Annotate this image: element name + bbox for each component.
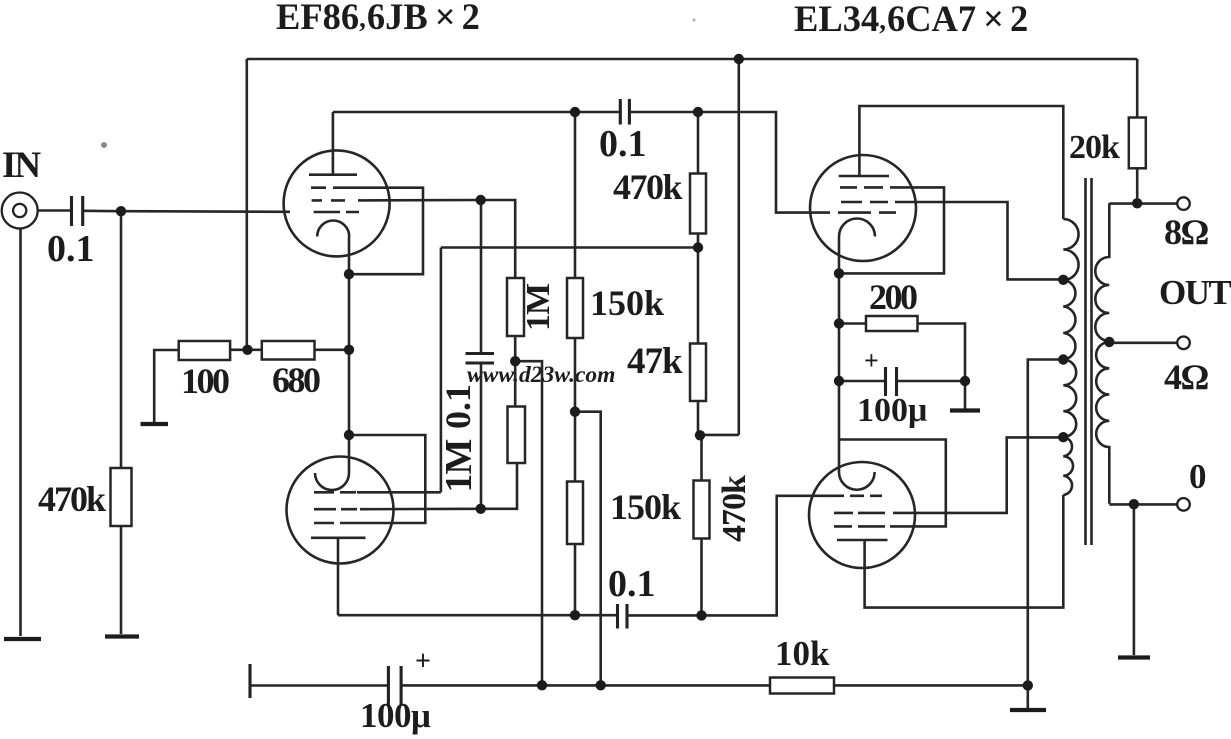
tube V1 plate bar [309,173,357,176]
svg-text:20k: 20k [1069,129,1120,166]
ground bar supply rail [1010,708,1046,712]
junction top rail / grid network riser [734,54,744,64]
resistor 150k lower [567,482,583,545]
resistor 47k divider [690,344,706,402]
svg-text:OUT: OUT [1159,273,1231,312]
junction feedback/100/680 [242,345,252,355]
junction primary UL tap lower [1058,432,1068,442]
wire 20k bottom to 8 ohm node [1136,168,1139,203]
resistor 470k lower grid (rotated label) [694,481,710,539]
wire 1M junction to long supply riser [515,361,542,685]
wire supply rail middle segment [401,684,770,687]
wire jack ground stem [19,229,22,637]
tube V1 grid g3 dashes [311,186,350,189]
svg-text:EL34,6CA7×2: EL34,6CA7×2 [794,0,1028,39]
tube V3 grid g1 dashes [838,211,896,214]
tube V4 plate bar [837,539,888,542]
transformer T1 secondary winding lower [1096,342,1109,504]
tube V1 grid g1 dashes [314,211,359,214]
svg-text:470k: 470k [38,479,106,519]
junction 680/cathode [344,345,354,355]
resistor 200 cathode bias [866,316,918,331]
wire cathode to 100u cap [839,380,886,383]
resistor 10k supply dropper [770,678,834,694]
wire V1 anode riser to coupling line [332,112,335,175]
junction rail/150k riser [596,680,606,690]
tube V2 cathode arc [315,473,349,490]
resistor 150k upper [567,278,583,338]
transformer T1 primary winding [1063,219,1078,495]
svg-text:150k: 150k [610,487,681,527]
ground bar secondary [1118,655,1150,659]
junction primary center tap [1058,354,1068,364]
svg-text:0.1: 0.1 [608,563,656,605]
wire 100 to 680 junction [230,348,262,351]
wire node down to 150k lower [574,412,577,482]
svg-text:470k: 470k [613,167,683,207]
wire 100u to ground node [897,381,966,409]
resistor 100 feedback shunt [179,341,230,360]
svg-text:1M: 1M [520,283,557,331]
wire feedback riser from top rail to cathode network [246,59,249,350]
wire 100-resistor left arm and down [154,350,179,423]
capacitor 100u cathode bypass [886,367,897,396]
junction rail/1M riser [537,680,547,690]
wire V2 anode down to output line [337,538,340,615]
junction V2 cathode/g3 [344,430,354,440]
capacitor 100u supply filter [388,666,401,706]
wire rail end to ground [1027,685,1030,708]
tube V4 grid g2 dashes [834,512,885,515]
junction 150k pair node [570,407,580,417]
svg-text:470k: 470k [716,475,753,542]
svg-text:1M: 1M [438,439,480,492]
junction y112/470k [693,107,703,117]
wire V1 g3 to cathode box [350,188,423,275]
wire V1 cathode line down through junctions [348,237,351,474]
wire divider riser down to V2 grid [440,248,443,493]
wire 1M upper bottom to 1M lower top [514,336,517,407]
wire 0 ohm line [1109,503,1177,506]
svg-text:47k: 47k [627,341,683,382]
tube V3 plate bar [839,175,889,178]
terminal 8 ohm [1177,197,1190,210]
svg-text:100: 100 [181,361,229,401]
resistor 20k feedback [1129,118,1146,169]
wire V3 anode riser and run to output transformer primary top [859,106,1063,219]
wire 470k lower bottom stem [700,539,703,616]
svg-text:200: 200 [869,277,917,317]
wire V2 g2 junction to 1M lower bottom [481,463,517,509]
ground bar at 100 resistor [141,422,169,426]
wire node to riser down to supply rail [575,412,601,686]
junction cathode/100u [834,376,844,386]
tube V2 plate bar [311,536,366,539]
tube V2 grid g1 dashes [314,491,356,494]
wire node to feedback-rail riser [700,434,739,437]
svg-text:150k: 150k [590,283,664,323]
wire V2 cathode box to g3 [349,435,425,523]
tube V2 grid g2 dashes [314,508,357,511]
wire V4 g2 to ultralinear tap [893,437,1063,513]
wire 470k upper top stem [697,112,700,174]
wire y112 right of cap to corner and down to EL34 V3 grid [629,112,830,213]
svg-text:100μ: 100μ [857,392,927,429]
wire V4 g3 to cathode box [839,440,946,527]
wire V2 g2 exit [360,507,481,510]
tube V3 grid g2 dashes [841,201,888,204]
wire lower cap to 470k node and corner up to EL34 V4 grid [627,496,828,616]
transformer T1 secondary winding upper [1095,203,1109,341]
junction 470k lower / plate line [696,610,706,620]
terminal 0 [1177,498,1190,511]
tube V3 grid g3 dashes [840,186,883,189]
junction V2 g2 node [476,504,486,514]
wire V3 g2 to ultralinear tap [895,202,1063,279]
wire g2 junction to 1M upper [481,200,516,278]
junction V1 g2 node [476,195,486,205]
tube V3 cathode arc [839,219,875,237]
wire node down to 470k input resistor [120,211,123,468]
junction V3 cathode/g3 [834,268,844,278]
wire 150k lower bottom stem [574,544,577,615]
tube V2 grid g3 dashes [314,522,356,525]
tube V1 grid g2 dashes [312,199,345,202]
transformer core lines [1086,178,1092,545]
junction cathode/200 [834,318,844,328]
wire cathode to 200 resistor [839,322,866,325]
svg-text:0: 0 [1189,457,1207,496]
tube V2 EF86 lower envelope [287,457,394,564]
wire jack to input cap [38,209,71,212]
wire V3 g3 to cathode box [839,187,944,273]
wire primary center tap to supply riser [1028,360,1064,686]
resistor 470k upper grid [690,174,706,234]
resistor 470k input grid leak [111,468,132,526]
svg-text:0.1: 0.1 [599,123,647,165]
wire V2 g1 exit to divider riser [357,491,441,494]
junction V1 cathode/g3 [344,269,354,279]
svg-text:IN: IN [2,145,41,186]
terminal bar supply left end [248,664,251,698]
wire grid divider line y246 [441,246,698,249]
junction 150k lower / plate line [570,610,580,620]
tube V1 cathode arc [317,221,349,237]
capacitor 0.1 interstage top [620,99,629,125]
svg-text:680: 680 [272,360,320,400]
wire screen cap down to V2 g2 junction [480,363,483,509]
junction 47k/470k lower [695,430,705,440]
wire V2 plate line to lower coupling cap [338,614,618,617]
wire V1 g2 exit [358,199,481,202]
junction rail/center tap riser [1023,680,1033,690]
capacitor 0.1 screen bypass [466,354,495,364]
faint scan speck top middle [692,18,695,21]
wire 47k bottom to node [697,401,700,435]
wire riser node up to top rail [737,59,740,435]
junction 1M pair node [510,356,520,366]
ground bar input jack [4,637,41,641]
wire top rail to 20k [1136,59,1139,118]
wire 470k to ground [120,526,123,634]
capacitor 0.1 input coupling [72,196,83,226]
wire supply rail left segment [250,684,388,687]
svg-text:10k: 10k [775,634,830,673]
terminal 4 ohm [1177,337,1190,350]
wire V4 anode down and to primary bottom [865,495,1064,608]
svg-text:8Ω: 8Ω [1164,212,1209,252]
wire node down to 470k lower [700,435,703,480]
svg-text:100μ: 100μ [360,696,431,735]
tube V4 grid g1 dashes [826,494,882,497]
wire input cap to grid node [83,210,121,213]
stray scan speck [101,142,107,148]
resistor 1M lower screen feed [508,407,526,464]
wire 150k upper bottom to node [574,338,577,412]
wire 470k bottom to 47k top [697,234,700,344]
resistor 680 cathode [262,341,315,360]
svg-text:0.1: 0.1 [438,384,478,429]
wire 680 to cathode line [315,348,350,351]
wire top feedback rail [247,58,1137,61]
capacitor 0.1 lower coupling [618,604,628,629]
wire 8 ohm tap line [1109,202,1177,205]
wire supply rail right segment [834,684,1028,687]
tube V1 EF86 upper envelope [284,150,390,256]
input jack connector [2,193,38,229]
tube V3 EL34 upper envelope [810,155,916,261]
junction secondary 0/ground [1129,499,1139,509]
junction divider 470k/47k [693,242,703,252]
junction 20k/8ohm [1132,198,1142,208]
wire secondary common to ground [1133,504,1136,655]
wire 150k column top stem [574,112,577,278]
junction y112/150k [570,107,580,117]
wire 4 ohm tap line [1109,341,1177,344]
tube V4 EL34 lower envelope [809,462,915,568]
resistor 1M upper screen feed [507,278,524,336]
ground bar cathode network [950,408,980,412]
junction input node [116,206,126,216]
wire anode coupling line y112 left of cap [333,111,620,114]
tube V4 cathode arc [839,472,875,490]
ground bar 470k input [105,634,139,638]
junction secondary 4ohm tap [1104,337,1114,347]
svg-text:EF86,6JB×2: EF86,6JB×2 [276,0,480,37]
svg-text:0.1: 0.1 [47,228,95,270]
svg-text:+: + [864,346,879,375]
wire g2 node down to screen bypass cap [480,200,483,354]
junction 200/100u right [960,376,970,386]
tube V4 grid g3 dashes [834,525,885,528]
junction primary UL tap upper [1058,275,1068,285]
svg-text:+: + [415,646,431,677]
wire grid node to EF86 V1 grid [121,210,290,213]
wire 200 right arm down [918,324,966,382]
wire common cathode line V3/V4 [838,237,841,473]
svg-text:4Ω: 4Ω [1164,357,1209,397]
